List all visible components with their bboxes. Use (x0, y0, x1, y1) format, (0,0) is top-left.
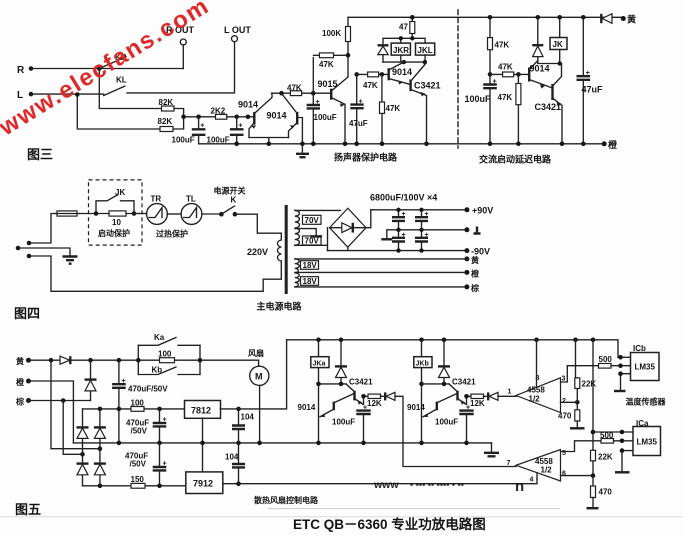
svg-text:启动保护: 启动保护 (98, 228, 130, 238)
svg-text:1/2: 1/2 (529, 395, 541, 404)
wire orange vertical (29, 381, 74, 443)
svg-text:黄: 黄 (627, 14, 636, 25)
wire 82K join node (173, 109, 216, 130)
node rail c (300, 142, 305, 147)
node rail da (339, 338, 344, 343)
resistor 100K (322, 17, 351, 77)
svg-text:47K: 47K (287, 84, 302, 93)
scan artifact line (268, 508, 560, 510)
node yellow c (117, 358, 122, 363)
regulator 7812 (185, 401, 221, 419)
node caps a (396, 208, 400, 212)
transistor 9014 protection (389, 62, 412, 85)
node rail e (343, 142, 348, 147)
svg-text:6: 6 (562, 471, 566, 478)
svg-text:过热保护: 过热保护 (156, 229, 188, 239)
fan motor M (248, 348, 269, 385)
svg-text:Kb: Kb (152, 366, 163, 375)
upper rect diode a (77, 409, 89, 454)
svg-text:9014: 9014 (298, 403, 316, 412)
node rail j (560, 142, 565, 147)
wire diode b to opamp1 (498, 395, 516, 397)
dashed startup-protect box (89, 180, 143, 245)
node ac1 join (98, 446, 103, 451)
svg-text:+: + (122, 378, 126, 385)
svg-text:220V: 220V (247, 247, 268, 257)
wire pin4 (536, 473, 538, 479)
svg-text:图三: 图三 (27, 147, 53, 162)
wire 18V tap yellow (295, 258, 467, 260)
ground mains (63, 257, 78, 264)
lower rect diode b (94, 449, 106, 486)
capacitor 100uF input right (207, 117, 244, 145)
svg-text:+: + (586, 70, 590, 77)
node 7912 in (98, 484, 103, 489)
diode clamp delay (532, 17, 543, 63)
node rail p8 (534, 338, 539, 343)
wire mid rail f5 (73, 442, 491, 444)
node rail d (311, 142, 316, 147)
node 7912 in b (157, 484, 162, 489)
terminal AC plug mid (16, 246, 21, 251)
node yellow a (49, 358, 54, 363)
diode clamp JKR (378, 45, 389, 62)
svg-text:K: K (231, 196, 237, 205)
node rail b (267, 142, 272, 147)
node 9014 delay rail (536, 15, 541, 20)
wire JK to TR (134, 213, 147, 215)
node delay (558, 61, 562, 65)
terminal AC plug bottom (27, 254, 32, 259)
svg-text:100uF: 100uF (465, 94, 492, 104)
svg-text:6800uF/100V ×4: 6800uF/100V ×4 (370, 193, 437, 203)
wire +90V rail (371, 209, 467, 211)
svg-text:/50V: /50V (130, 460, 147, 469)
terminal yellow f5 (16, 356, 31, 366)
svg-text:9014: 9014 (530, 64, 550, 74)
relay JKa (311, 340, 329, 443)
svg-text:橙: 橙 (16, 377, 25, 387)
svg-text:温度传感器: 温度传感器 (626, 397, 667, 407)
wire diff emitters (249, 138, 289, 144)
svg-text:-90V: -90V (471, 247, 490, 257)
resistor 2K2 (211, 107, 227, 120)
transformer secondary 70V winding (295, 210, 300, 245)
svg-text:+: + (425, 232, 429, 239)
svg-text:JKL: JKL (418, 46, 433, 55)
wire bridge plus to rail (366, 210, 371, 228)
wire to fan motor (200, 360, 259, 366)
svg-text:100: 100 (158, 350, 172, 359)
svg-text:电源开关: 电源开关 (214, 186, 246, 196)
diode yellow-brown (85, 360, 97, 400)
node 12k a (361, 394, 366, 399)
node jkb bottom (419, 382, 424, 387)
svg-text:棕: 棕 (470, 283, 479, 293)
node brown a (61, 398, 66, 403)
label 70V lower box (303, 236, 322, 246)
wire relay top rail (383, 38, 425, 45)
node mid e (257, 441, 262, 446)
svg-text:7812: 7812 (191, 406, 211, 416)
wire pin2 (561, 401, 578, 403)
transformer secondary 18V winding (295, 259, 299, 287)
wire L row (31, 93, 104, 95)
wire 593 vertical (592, 340, 594, 451)
transistor 9015 (318, 77, 349, 144)
resistor 100 fan (138, 350, 200, 363)
resistor 47K delay top (488, 17, 510, 74)
svg-text:扬声器保护电路: 扬声器保护电路 (334, 152, 398, 163)
wire icb top pin (618, 356, 631, 358)
wire 9015 base row (313, 58, 331, 106)
node JK right (132, 211, 137, 216)
dashed divider (457, 10, 459, 148)
svg-text:JKa: JKa (313, 360, 326, 367)
svg-text:12K: 12K (470, 399, 485, 408)
svg-text:82K: 82K (158, 117, 173, 126)
diode out a (381, 392, 396, 400)
resistor 47K upper horizontal (314, 53, 349, 69)
svg-text:70V: 70V (305, 216, 320, 225)
terminal R OUT (166, 25, 195, 69)
node base left (246, 115, 251, 120)
diode clamp JKb (438, 340, 450, 384)
svg-text:47K: 47K (498, 63, 513, 72)
node rail db (442, 338, 447, 343)
node yellow b (88, 358, 93, 363)
resistor 82K lower (158, 117, 174, 132)
wire 70V bottom tap (295, 228, 328, 251)
svg-text:9014: 9014 (392, 67, 412, 77)
resistor 47 top (399, 17, 415, 38)
capacitor 100uF fan b (435, 411, 474, 443)
diode out b (484, 392, 499, 400)
svg-text:100: 100 (131, 399, 145, 408)
node pin2 (575, 400, 580, 405)
svg-text:82K: 82K (159, 98, 174, 107)
svg-text:C3421: C3421 (535, 102, 562, 112)
wire 70V center tap (295, 229, 322, 237)
node ica mid (620, 439, 625, 444)
svg-text:1/2: 1/2 (541, 466, 553, 475)
svg-text:TR: TR (151, 195, 162, 204)
resistor 12K b (466, 394, 485, 411)
wire 500 upper row + resistor 500 (599, 355, 631, 368)
wire delay node row (538, 63, 562, 65)
node rail 22k (573, 338, 578, 343)
transistor 9014 diff left (238, 93, 272, 137)
terminal orange f5 (16, 377, 31, 387)
svg-text:470uF/50V: 470uF/50V (128, 385, 168, 394)
lower rect diode a (77, 454, 89, 486)
node jka rail (316, 441, 321, 446)
svg-text:70V: 70V (305, 237, 320, 246)
svg-text:500: 500 (600, 431, 614, 440)
svg-text:150: 150 (131, 475, 145, 484)
node rail 593 (591, 338, 596, 343)
node mix (181, 115, 186, 120)
node mid a (117, 441, 122, 446)
svg-text:7: 7 (507, 460, 511, 467)
switch KR (99, 53, 126, 69)
node 7812 in c (157, 407, 162, 412)
svg-text:JKR: JKR (393, 46, 409, 55)
node 47K3 top (516, 72, 521, 77)
wire L to 82K lower (77, 95, 160, 130)
wire AC top to fuse (29, 214, 57, 244)
node caps b (419, 208, 423, 212)
capacitor 6800uF a (392, 210, 406, 230)
svg-text:L OUT: L OUT (224, 25, 251, 35)
node mid d (236, 441, 241, 446)
transistor 9014 delay (529, 61, 552, 89)
wire 70V top tap (295, 209, 341, 211)
node mid b (157, 441, 162, 446)
wire brown down (63, 401, 82, 455)
wire 2K2 to diff pair (227, 116, 255, 118)
svg-text:100K: 100K (322, 29, 341, 38)
capacitor 104 upper (232, 409, 254, 443)
op-amp 4558 lower (507, 450, 567, 484)
node cap1 top (196, 115, 201, 120)
transistor C3421 delay (535, 64, 563, 144)
node 47K-382 top (380, 72, 385, 77)
node orange fig3 (602, 139, 618, 150)
resistor 22K upper (575, 340, 597, 410)
diode series yellow (60, 356, 70, 364)
svg-text:100uF: 100uF (172, 136, 195, 145)
wire 7812 gnd (202, 418, 204, 472)
node 9015 base (311, 91, 316, 96)
svg-text:9015: 9015 (318, 79, 338, 89)
watermark red www.elecfans.com (0, 0, 215, 142)
wire 7912 output (223, 479, 537, 484)
svg-text:/50V: /50V (131, 427, 148, 436)
capacitor 47uF left (349, 74, 368, 143)
node 7912 out (236, 481, 241, 486)
relay contact JK (96, 188, 134, 214)
switch Ka (138, 333, 200, 345)
node R input (17, 65, 33, 76)
terminal GND (464, 227, 480, 234)
resistor 47K base horizontal (357, 72, 389, 90)
sensor ICb (631, 344, 660, 381)
node caps f (419, 248, 423, 252)
node JK left (94, 211, 99, 216)
svg-text:47uF: 47uF (582, 85, 604, 95)
node 100uF a rail (361, 441, 366, 446)
wire yellow row b (70, 359, 138, 361)
svg-text:100uF: 100uF (435, 418, 458, 427)
svg-text:+: + (239, 123, 243, 130)
transformer primary winding (277, 240, 281, 261)
wire top rail fig3 (348, 16, 623, 18)
svg-text:10: 10 (112, 218, 121, 227)
node L input (17, 90, 33, 101)
node icb mid (618, 363, 623, 368)
node 47 top rail (410, 15, 415, 20)
terminal brown f5 (15, 397, 31, 407)
node ac2 join (80, 452, 85, 457)
wire R row (31, 68, 183, 70)
thermal switch TL (181, 195, 202, 225)
svg-text:JK: JK (553, 40, 563, 49)
wire motor down (259, 385, 261, 443)
wire fuse to JK box (79, 213, 96, 215)
resistor 82K upper (159, 98, 175, 111)
node cap2 top (234, 115, 239, 120)
svg-text:KL: KL (116, 76, 127, 85)
node delay base (488, 72, 493, 77)
svg-text:ETC QB－6360 专业功放电路图: ETC QB－6360 专业功放电路图 (293, 516, 486, 532)
wire c3421a emitter node (364, 396, 369, 404)
svg-text:12K: 12K (367, 399, 382, 408)
svg-text:47uF: 47uF (349, 119, 368, 128)
resistor 470 upper (558, 410, 580, 421)
wire jka node row (319, 383, 347, 385)
label 18V upper box (301, 261, 319, 270)
capacitor 6800uF b (415, 210, 429, 230)
node 47uF rail (581, 15, 586, 20)
svg-text:22K: 22K (598, 453, 613, 462)
node rail a (234, 142, 239, 147)
wire 7912 input row (83, 485, 186, 487)
node db join (442, 382, 447, 387)
regulator 7912 (186, 472, 223, 494)
node rail h (488, 142, 493, 147)
svg-text:47K: 47K (386, 104, 401, 113)
capacitor 100uF fan a (332, 411, 371, 443)
svg-text:18V: 18V (303, 261, 318, 270)
transistor C3421 protection (411, 64, 441, 144)
svg-text:18V: 18V (303, 277, 318, 286)
node 100K bottom (346, 53, 351, 58)
wire K to primary (235, 214, 281, 240)
wire c3421b emitter node (467, 396, 472, 404)
thermal switch TR (147, 195, 168, 225)
watermark black fragment (373, 478, 524, 495)
terminal +90V (464, 206, 493, 216)
relay JKL (416, 43, 435, 55)
svg-text:黄: 黄 (471, 255, 479, 265)
resistor 47K delay lower (498, 74, 521, 143)
svg-text:LM35: LM35 (637, 438, 658, 447)
ground 470 lower (587, 498, 599, 509)
node 12k b (464, 394, 469, 399)
svg-text:47K: 47K (319, 60, 334, 69)
wire pin8 (536, 340, 538, 387)
node caps c (396, 228, 400, 232)
node L junction (75, 92, 80, 97)
wire icb bottom pin + ground (614, 371, 631, 391)
capacitor 6800uF c (392, 230, 406, 251)
svg-text:+90V: +90V (472, 206, 493, 216)
node JK rail (557, 15, 562, 20)
resistor 100 reg (131, 399, 145, 412)
svg-text:Ka: Ka (154, 333, 165, 342)
svg-text:n: n (515, 478, 524, 495)
op-amp 4558 upper (508, 375, 567, 413)
node 593 ica (591, 430, 596, 435)
resistor 10 (96, 211, 134, 227)
svg-text:+: + (493, 79, 497, 86)
wire 7812 output (221, 340, 287, 409)
wire +12V top rail (287, 340, 618, 358)
svg-text:橙: 橙 (608, 139, 618, 150)
terminal orange f4 (464, 269, 480, 279)
node ica top (620, 430, 625, 435)
node relay bottom b (423, 60, 427, 64)
wire pin6 (561, 475, 594, 477)
scan artifact line2 (0, 516, 683, 518)
node 7812 out (236, 407, 241, 412)
wire yellow row (29, 359, 61, 361)
diode clamp JKa (335, 340, 347, 384)
switch K mains (214, 186, 246, 217)
wire TR to TL (167, 213, 181, 215)
node rail 47K (488, 15, 493, 20)
terminal brown f4 (464, 283, 479, 293)
resistor 500 lower (600, 431, 633, 443)
svg-text:M: M (255, 372, 263, 382)
node caps e (396, 248, 400, 252)
svg-text:ICb: ICb (633, 344, 646, 353)
svg-text:图五: 图五 (15, 502, 41, 517)
wire yellow down (51, 360, 100, 449)
ground mid rail (484, 443, 499, 456)
svg-text:22K: 22K (582, 380, 597, 389)
svg-text:104: 104 (225, 453, 239, 462)
relay JK delay (550, 17, 567, 63)
resistor 12K a (363, 394, 382, 411)
svg-text:100uF: 100uF (332, 418, 355, 427)
wire diode a to opamp2 (395, 396, 516, 466)
ground fig3 (296, 144, 309, 157)
svg-text:104: 104 (241, 413, 255, 422)
relay JKb (414, 340, 432, 443)
capacitor 470uF mid (126, 409, 167, 443)
node relay rail (399, 36, 403, 40)
node fan combo (198, 358, 203, 363)
svg-text:L: L (17, 90, 23, 101)
svg-text:+: + (200, 123, 204, 130)
svg-text:风扇: 风扇 (248, 348, 264, 358)
svg-text:2: 2 (562, 398, 566, 405)
wire -90V rail (328, 247, 467, 250)
node jkb rail (419, 441, 424, 446)
switch KL (104, 76, 127, 96)
wire mid rail (381, 230, 467, 240)
svg-text:C3421: C3421 (414, 81, 441, 91)
svg-text:www: www (373, 479, 399, 491)
terminal -90V (464, 247, 490, 257)
svg-text:470: 470 (558, 412, 572, 421)
capacitor 100uF 9015 (307, 99, 337, 144)
wire right base (297, 118, 302, 144)
terminal AC plug top (27, 241, 32, 246)
svg-text:橙: 橙 (471, 269, 480, 279)
wire 18V tap orange (295, 271, 467, 273)
svg-text:1: 1 (508, 389, 512, 396)
svg-text:C3421: C3421 (452, 378, 476, 387)
svg-text:4: 4 (530, 477, 534, 484)
node relay bottom (402, 60, 406, 64)
transistor 9014 fan b (407, 394, 457, 417)
node rail i (516, 142, 521, 147)
node relay rail b (410, 36, 414, 40)
svg-text:主电源电路: 主电源电路 (257, 301, 303, 312)
